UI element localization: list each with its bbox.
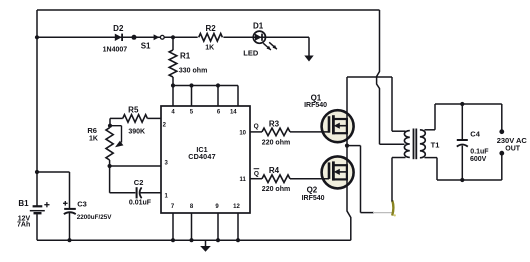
svg-text:C4: C4 — [470, 129, 480, 138]
svg-text:14: 14 — [230, 110, 237, 116]
svg-text:0.1uF: 0.1uF — [470, 149, 489, 156]
svg-text:2200uF/25V: 2200uF/25V — [77, 214, 112, 221]
svg-text:R4: R4 — [269, 166, 280, 175]
svg-text:230V AC: 230V AC — [497, 136, 528, 145]
svg-text:12: 12 — [233, 204, 240, 210]
svg-text:390K: 390K — [128, 128, 145, 135]
svg-text:Q: Q — [254, 123, 259, 130]
svg-text:1K: 1K — [205, 45, 214, 52]
svg-text:11: 11 — [240, 177, 247, 183]
svg-text:10: 10 — [239, 130, 246, 136]
svg-text:R5: R5 — [128, 105, 139, 114]
svg-text:D2: D2 — [113, 24, 124, 33]
svg-text:D1: D1 — [253, 21, 264, 30]
svg-text:1N4007: 1N4007 — [103, 47, 128, 54]
svg-text:R6: R6 — [87, 126, 97, 135]
svg-text:IRF540: IRF540 — [302, 195, 325, 202]
svg-text:C3: C3 — [77, 199, 87, 208]
svg-text:1K: 1K — [89, 136, 98, 143]
svg-text:R2: R2 — [205, 24, 216, 33]
svg-text:LED: LED — [243, 49, 259, 58]
svg-text:T1: T1 — [431, 141, 440, 150]
svg-text:0.01uF: 0.01uF — [129, 200, 152, 207]
svg-text:330 ohm: 330 ohm — [179, 68, 207, 75]
svg-text:OUT: OUT — [505, 146, 521, 153]
svg-text:B1: B1 — [18, 199, 29, 208]
svg-text:S1: S1 — [141, 41, 151, 50]
svg-text:220 ohm: 220 ohm — [262, 140, 290, 147]
svg-text:IRF540: IRF540 — [304, 102, 327, 109]
svg-text:C2: C2 — [134, 178, 144, 187]
svg-text:Q: Q — [254, 171, 259, 178]
svg-text:CD4047: CD4047 — [188, 152, 216, 161]
svg-text:Q2: Q2 — [307, 185, 318, 194]
svg-text:220 ohm: 220 ohm — [262, 186, 290, 193]
svg-text:R3: R3 — [269, 119, 280, 128]
svg-text:7Ah: 7Ah — [17, 221, 30, 228]
svg-text:R1: R1 — [180, 52, 191, 61]
svg-text:600V: 600V — [470, 156, 487, 163]
